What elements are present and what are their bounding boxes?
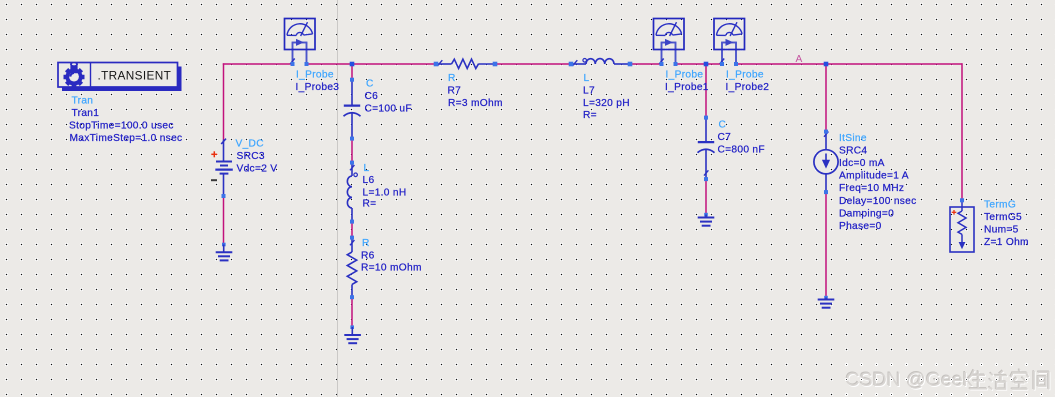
resistor R6 xyxy=(347,238,356,298)
svg-text:R: R xyxy=(448,73,456,84)
wire: L6 to R6 xyxy=(351,222,353,238)
svg-text:SRC4: SRC4 xyxy=(839,145,867,156)
wire: bus L7 to I_Probe1 xyxy=(630,63,662,65)
current probe I_Probe3 xyxy=(285,19,316,67)
svg-text:C=800 nF: C=800 nF xyxy=(718,145,765,156)
wire: bus I_Probe2 to right corner xyxy=(736,63,963,65)
svg-text:I_Probe: I_Probe xyxy=(726,70,764,81)
SRC3 plus sign xyxy=(211,151,217,157)
svg-text:StopTime=100.0 usec: StopTime=100.0 usec xyxy=(69,121,174,132)
TermG5 plus sign xyxy=(952,210,957,215)
svg-text:ItSine: ItSine xyxy=(839,133,867,144)
svg-text:I_Probe1: I_Probe1 xyxy=(665,82,709,93)
svg-text:MaxTimeStep=1.0 nsec: MaxTimeStep=1.0 nsec xyxy=(70,133,183,144)
svg-text:TermG: TermG xyxy=(984,200,1016,211)
R7 labels xyxy=(448,73,503,109)
wire: left vertical drop to SRC3 xyxy=(223,63,225,139)
R6 labels xyxy=(361,238,422,274)
svg-text:R=3 mOhm: R=3 mOhm xyxy=(448,98,503,109)
svg-text:Z=1 Ohm: Z=1 Ohm xyxy=(984,237,1029,248)
I_Probe1 labels xyxy=(665,70,709,94)
svg-text:Phase=0: Phase=0 xyxy=(839,221,882,232)
SRC3 labels xyxy=(236,139,278,175)
svg-text:L6: L6 xyxy=(363,175,375,186)
junction at C6 branch xyxy=(350,62,355,67)
L6 labels xyxy=(363,163,407,210)
transient settings text xyxy=(69,95,182,144)
ground under SRC3 xyxy=(216,245,233,261)
termination TermG5 xyxy=(950,200,974,252)
svg-text:I_Probe2: I_Probe2 xyxy=(726,82,770,93)
C7 labels xyxy=(718,120,765,156)
svg-text:Tran: Tran xyxy=(72,95,94,106)
SRC4 terminal squares xyxy=(824,130,828,300)
svg-text:A: A xyxy=(796,54,803,65)
svg-text:Idc=0 mA: Idc=0 mA xyxy=(839,158,885,169)
svg-text:TermG5: TermG5 xyxy=(984,212,1022,223)
node A label xyxy=(796,54,803,65)
wire: bus junction down to SRC4 xyxy=(825,64,827,132)
svg-text:C6: C6 xyxy=(365,91,379,102)
wire: bus I_Probe3 to R7 xyxy=(307,63,437,65)
wire: main bus left segment xyxy=(223,63,293,65)
svg-text:R: R xyxy=(362,238,370,249)
capacitor C6 xyxy=(344,80,361,139)
wire: SRC4 to ground xyxy=(825,192,827,298)
sine current source ItSine SRC4 xyxy=(814,132,838,193)
SRC3 terminal squares xyxy=(222,194,226,246)
C6 terminal squares xyxy=(350,78,354,141)
svg-text:R6: R6 xyxy=(361,250,375,261)
svg-text:.TRANSIENT: .TRANSIENT xyxy=(98,68,172,82)
C7 terminal squares xyxy=(704,116,708,217)
SRC3 minus sign xyxy=(211,179,217,181)
svg-text:Amplitude=1 A: Amplitude=1 A xyxy=(839,171,909,182)
L6 terminal squares xyxy=(350,161,354,224)
svg-text:I_Probe: I_Probe xyxy=(296,70,334,81)
svg-text:Freq=10 MHz: Freq=10 MHz xyxy=(839,183,904,194)
wire: bus junction down to C6 xyxy=(351,64,353,80)
svg-text:I_Probe: I_Probe xyxy=(666,70,704,81)
I_Probe2 labels xyxy=(726,70,770,94)
dc source V_DC SRC3 xyxy=(215,139,233,196)
svg-text:R=10 mOhm: R=10 mOhm xyxy=(361,263,422,274)
svg-text:C=100 uF: C=100 uF xyxy=(365,104,412,115)
svg-text:L: L xyxy=(364,163,370,174)
svg-text:SRC3: SRC3 xyxy=(237,151,265,162)
svg-text:R7: R7 xyxy=(448,86,462,97)
grid dots over watermark xyxy=(845,363,1043,396)
svg-text:L: L xyxy=(584,73,590,84)
ground under R6 xyxy=(344,327,361,343)
wire: bus R7 to L7 xyxy=(495,63,571,65)
L7 terminal squares xyxy=(569,62,633,67)
I_Probe3 labels xyxy=(296,70,340,94)
watermark xyxy=(845,368,1050,392)
svg-text:C: C xyxy=(366,79,374,90)
inductor L6 xyxy=(347,163,357,222)
wire: right vertical drop to TermG5 xyxy=(961,63,963,199)
resistor R7 xyxy=(436,59,495,68)
svg-text:I_Probe3: I_Probe3 xyxy=(296,82,340,93)
C6 labels xyxy=(365,79,412,115)
svg-text:L=1.0 nH: L=1.0 nH xyxy=(363,187,407,198)
inductor L7 xyxy=(571,59,630,66)
svg-text:Vdc=2 V: Vdc=2 V xyxy=(237,164,278,175)
wire: R6 to ground xyxy=(351,297,353,327)
gear icon xyxy=(64,62,85,89)
TermG5 labels xyxy=(984,200,1029,248)
wire: bus I_Probe1 to I_Probe2 xyxy=(676,63,723,65)
svg-text:C: C xyxy=(719,120,727,131)
svg-text:V_DC: V_DC xyxy=(236,139,264,150)
simulation controller TRANSIENT box xyxy=(58,63,182,92)
R7 terminal squares xyxy=(434,62,498,67)
svg-text:Tran1: Tran1 xyxy=(72,108,100,119)
junction at SRC4 branch xyxy=(824,62,829,67)
ground under C7 xyxy=(698,215,715,226)
capacitor C7 xyxy=(698,118,715,179)
wire: SRC3 to ground xyxy=(223,196,225,244)
wire: C6 to L6 xyxy=(351,139,353,163)
TermG5 terminal square xyxy=(960,198,964,202)
svg-text:C7: C7 xyxy=(718,132,732,143)
wire: bus junction down to C7 xyxy=(705,64,707,118)
R6 terminal squares xyxy=(350,236,354,329)
svg-text:L7: L7 xyxy=(583,86,595,97)
ground under SRC4 xyxy=(818,298,835,308)
svg-text:Num=5: Num=5 xyxy=(984,224,1019,235)
svg-text:R=: R= xyxy=(363,199,377,210)
junction at C7 branch xyxy=(704,62,709,67)
L7 labels xyxy=(583,73,630,121)
svg-text:R=: R= xyxy=(583,110,597,121)
wire: C7 to ground xyxy=(705,179,707,215)
svg-text:Damping=0: Damping=0 xyxy=(839,208,894,219)
svg-text:Delay=100 nsec: Delay=100 nsec xyxy=(839,196,917,207)
current probe I_Probe1 xyxy=(654,19,685,67)
svg-text:L=320 pH: L=320 pH xyxy=(583,98,630,109)
SRC4 labels xyxy=(839,133,917,232)
current probe I_Probe2 xyxy=(714,19,745,67)
